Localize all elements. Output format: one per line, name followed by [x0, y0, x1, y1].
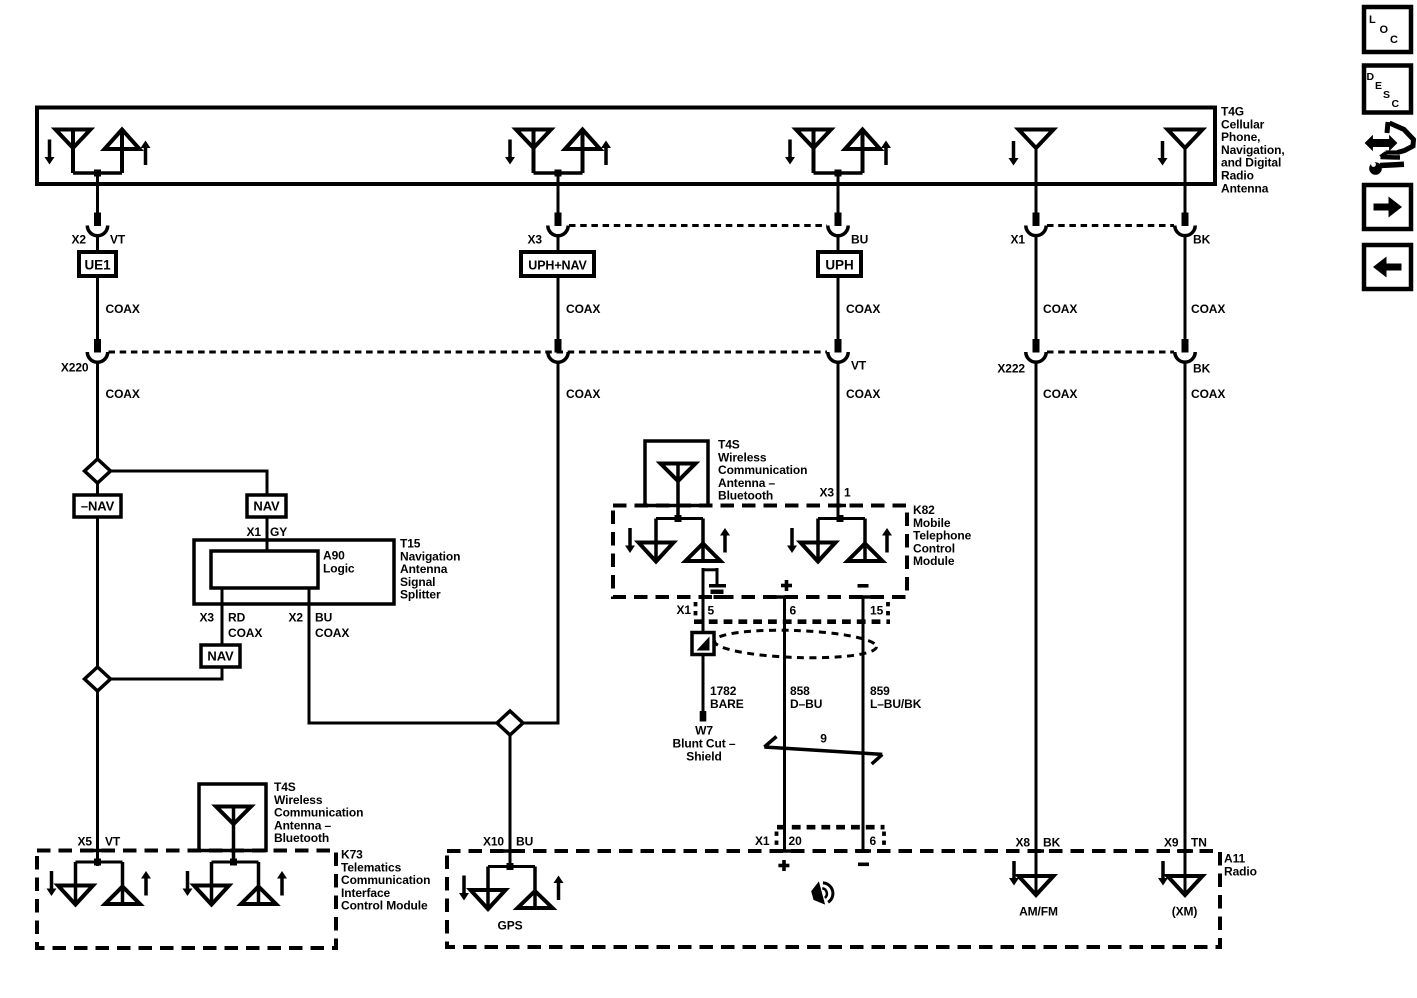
svg-text:BK: BK	[1193, 233, 1211, 247]
svg-text:E: E	[1375, 80, 1382, 92]
label W7 Blunt Cut Shield	[673, 724, 736, 764]
svg-text:BU: BU	[851, 233, 868, 247]
svg-text:UPH: UPH	[825, 258, 853, 273]
svg-text:859: 859	[870, 684, 890, 698]
svg-text:X9: X9	[1164, 836, 1179, 850]
svg-text:X220: X220	[61, 361, 89, 375]
svg-text:15: 15	[870, 604, 884, 618]
code NAV box upper	[247, 495, 286, 517]
connector inline wire 3 row 2	[828, 339, 848, 362]
svg-text:UE1: UE1	[85, 258, 112, 273]
antenna T4S Bluetooth box upper	[645, 441, 708, 506]
svg-text:VT: VT	[105, 835, 121, 849]
label T4S Wireless Communication Antenna Bluetooth upper	[718, 438, 807, 503]
svg-text:GY: GY	[270, 525, 287, 539]
svg-text:X3: X3	[528, 233, 543, 247]
wire connector to row 2	[1184, 236, 1187, 341]
wire X1 to X222	[1035, 236, 1038, 341]
svg-text:Bluetooth: Bluetooth	[718, 489, 773, 503]
connector X2 inline	[87, 213, 107, 236]
antenna input XM triangle	[1168, 876, 1203, 895]
wire voice negative 859	[862, 597, 865, 851]
code -NAV box	[74, 495, 121, 517]
svg-text:NAV: NAV	[253, 499, 280, 514]
wire 2 to GPS junction	[557, 362, 560, 725]
connector inline wire 2 row 2	[548, 339, 568, 362]
label T15 Navigation Antenna Signal Splitter	[400, 537, 460, 602]
svg-text:X2: X2	[72, 233, 87, 247]
svg-text:X1: X1	[247, 525, 262, 539]
svg-text:COAX: COAX	[1191, 302, 1225, 316]
antenna pair inside K73 at X5 wire	[47, 859, 152, 905]
label minus K62	[858, 584, 869, 588]
wire down to radio X9	[1184, 362, 1187, 895]
wire 3 down to K62 module	[837, 362, 840, 520]
wire splitter X3 RD output	[221, 588, 224, 646]
antenna element 4 (receive) in T4G box	[1009, 130, 1054, 166]
antenna input AM/FM triangle	[1019, 876, 1054, 895]
svg-text:BU: BU	[516, 835, 533, 849]
dashed connector link X220 to VT	[109, 351, 828, 354]
wire shield pin 5 to blunt cut	[702, 568, 705, 711]
svg-text:TN: TN	[1191, 836, 1207, 850]
dotted connector face line K62 X1	[694, 619, 890, 624]
wire X222 to radio X8	[1035, 362, 1038, 895]
module K62 Mobile Telephone Control Module dashed box	[613, 506, 907, 598]
label circuit 858 D-BU	[790, 684, 822, 711]
svg-text:GPS: GPS	[497, 919, 522, 933]
dashed connector link X1 to BK	[1047, 224, 1174, 227]
svg-text:COAX: COAX	[106, 387, 140, 401]
svg-text:Shield: Shield	[686, 750, 721, 764]
svg-text:VT: VT	[110, 233, 126, 247]
svg-text:Radio: Radio	[1224, 864, 1257, 878]
connector X222 inline	[1026, 339, 1046, 362]
wire NAV lower to splice B	[109, 667, 224, 681]
svg-text:X3: X3	[200, 611, 215, 625]
antenna element pair 2 (transmit/receive) in T4G box	[505, 130, 611, 177]
wire horizontal GPS junction run	[308, 722, 560, 725]
svg-text:COAX: COAX	[846, 387, 880, 401]
svg-text:1: 1	[844, 486, 851, 500]
svg-text:X1: X1	[677, 603, 692, 617]
svg-text:AM/FM: AM/FM	[1019, 905, 1058, 919]
dashed connector link X222 to BK	[1047, 351, 1174, 354]
wire X2 to UE1	[96, 236, 99, 253]
svg-text:COAX: COAX	[1191, 387, 1225, 401]
wire X3 to UPH+NAV	[557, 236, 560, 253]
svg-text:9: 9	[820, 732, 827, 746]
label A11 Radio	[1224, 852, 1257, 879]
wire splice A to -NAV box	[96, 483, 99, 495]
connector inline wire 5 row 2	[1175, 339, 1195, 362]
label K73 Telematics Communication Interface Control Module	[341, 848, 430, 913]
svg-text:L–BU/BK: L–BU/BK	[870, 697, 922, 711]
svg-text:BARE: BARE	[710, 697, 744, 711]
wire voice positive 858	[783, 597, 786, 851]
connector inline wire 5 row 1	[1175, 213, 1195, 236]
svg-text:X222: X222	[997, 362, 1025, 376]
svg-text:VT: VT	[851, 359, 867, 373]
svg-text:X10: X10	[483, 835, 504, 849]
antenna assembly T4G outline box	[37, 108, 1215, 185]
svg-text:20: 20	[789, 834, 803, 848]
antenna T4S Bluetooth box lower	[199, 784, 266, 851]
label circuit 1782 BARE	[710, 684, 744, 711]
antenna element pair 3 (transmit/receive) in T4G box	[785, 130, 891, 177]
wire NAV to splitter pin X1	[266, 517, 269, 552]
svg-text:Splitter: Splitter	[400, 588, 441, 602]
svg-text:COAX: COAX	[1043, 387, 1077, 401]
connector X220 inline	[87, 339, 107, 362]
svg-text:Control Module: Control Module	[341, 899, 428, 913]
wire splice C to X10	[509, 735, 512, 867]
svg-text:Antenna: Antenna	[1221, 181, 1269, 195]
module A11 Radio dashed box	[447, 851, 1220, 947]
svg-text:X1: X1	[1011, 233, 1026, 247]
label circuit 859 L-BU/BK	[870, 684, 922, 711]
label T4G Cellular Phone Navigation and Digital Radio Antenna	[1221, 105, 1285, 196]
svg-text:C: C	[1392, 98, 1400, 110]
wire antenna 4 to connector X1	[1035, 148, 1038, 214]
label minus radio	[858, 863, 869, 867]
wire splice A branch to NAV box	[109, 470, 268, 496]
tick dotted left X1	[694, 602, 698, 618]
svg-text:S: S	[1383, 89, 1390, 101]
svg-text:COAX: COAX	[228, 626, 262, 640]
svg-text:BU: BU	[315, 611, 332, 625]
svg-text:NAV: NAV	[207, 649, 234, 664]
label A90 Logic	[323, 549, 355, 576]
antenna pair Bluetooth inside K62	[625, 515, 730, 562]
wire antenna 5 to connector	[1184, 148, 1187, 214]
wire splice B to X5 K73	[96, 691, 99, 866]
terminal bar at X5 entry	[90, 849, 106, 853]
dotted connector face line radio X1	[777, 825, 885, 830]
twisted-lead arrow note	[764, 737, 882, 765]
svg-text:W7: W7	[695, 724, 713, 738]
dashed connector link X3 to BU	[569, 224, 827, 227]
terminal bar at K62 entry	[830, 504, 846, 508]
module K73 Telematics Communication Interface Control Module dashed box	[37, 851, 336, 949]
antenna element 5 (receive) in T4G box	[1158, 130, 1203, 166]
wire antenna 2 feed to connector X3	[557, 173, 560, 214]
svg-text:Logic: Logic	[323, 562, 355, 576]
svg-text:COAX: COAX	[846, 302, 880, 316]
connector X3 inline	[548, 213, 568, 236]
svg-text:X3: X3	[820, 486, 835, 500]
svg-text:X5: X5	[78, 835, 93, 849]
wire UPH to inline connector	[837, 276, 840, 340]
label plus radio	[778, 860, 789, 871]
arrow down XM	[1161, 861, 1165, 878]
svg-text:Bluetooth: Bluetooth	[274, 831, 329, 845]
shield marker square with triangle	[692, 633, 714, 655]
tick dotted radio right	[882, 832, 886, 848]
icon box DESC	[1364, 66, 1411, 113]
antenna symbol in T4S upper	[661, 464, 696, 520]
ground symbol K62 shield	[703, 568, 726, 599]
wire antenna 1 feed to connector X2	[96, 173, 99, 214]
svg-text:858: 858	[790, 684, 810, 698]
svg-text:X2: X2	[289, 611, 304, 625]
antenna symbol in T4S lower	[216, 807, 251, 863]
connector X1 inline	[1026, 213, 1046, 236]
terminal bar at X9 entry	[1177, 849, 1193, 853]
icon box LOC	[1364, 7, 1411, 52]
wire splitter X2 BU output	[308, 588, 311, 725]
svg-text:L: L	[1369, 14, 1376, 26]
antenna pair cellular inside K62	[787, 515, 892, 562]
svg-text:COAX: COAX	[1043, 302, 1077, 316]
svg-text:BK: BK	[1193, 362, 1211, 376]
terminal bar at X10 entry	[502, 849, 518, 853]
antenna element pair 1 (transmit/receive) in T4G box	[45, 130, 151, 177]
svg-text:COAX: COAX	[566, 302, 600, 316]
wire antenna 3 feed to connector	[837, 173, 840, 214]
svg-text:X1: X1	[755, 834, 770, 848]
svg-text:COAX: COAX	[106, 302, 140, 316]
terminal bar 858 at K62	[777, 595, 793, 599]
svg-text:Module: Module	[913, 554, 955, 568]
label K82 Mobile Telephone Control Module	[913, 503, 972, 568]
option code UPH box	[818, 252, 861, 276]
svg-text:BK: BK	[1043, 836, 1061, 850]
svg-text:X8: X8	[1016, 836, 1031, 850]
antenna pair inside K73 at T4S antenna	[183, 859, 288, 905]
wire UPH+NAV to inline connector	[557, 276, 560, 340]
svg-text:(XM): (XM)	[1172, 905, 1198, 919]
label T4S Wireless Communication Antenna Bluetooth lower	[274, 780, 363, 845]
label plus K62	[781, 580, 792, 591]
terminal bar 6 at radio	[855, 849, 871, 853]
svg-text:O: O	[1380, 24, 1389, 36]
connector inline wire 3 row 1	[828, 213, 848, 236]
wire to UPH box	[837, 236, 840, 253]
terminal bar at X8 entry	[1028, 849, 1044, 853]
tick dotted right	[886, 602, 890, 618]
tick dotted radio left	[775, 832, 779, 848]
svg-text:6: 6	[790, 604, 797, 618]
speaker icon radio	[809, 879, 835, 908]
svg-text:D: D	[1367, 71, 1375, 83]
svg-text:C: C	[1390, 34, 1398, 46]
splice diamond node B	[85, 667, 111, 691]
splice diamond node C	[497, 711, 523, 735]
arrow down AM/FM	[1012, 861, 1016, 878]
svg-text:COAX: COAX	[315, 626, 349, 640]
wire -NAV to splice B	[96, 517, 99, 668]
svg-text:D–BU: D–BU	[790, 697, 822, 711]
wire UE1 to X220 COAX	[96, 276, 99, 340]
code NAV box lower	[201, 645, 240, 667]
icon box arrow left	[1364, 245, 1411, 289]
shield dashed ellipse	[714, 628, 877, 661]
svg-text:RD: RD	[228, 611, 246, 625]
svg-text:1782: 1782	[710, 684, 737, 698]
splice diamond node A	[85, 459, 111, 483]
svg-text:Blunt Cut –: Blunt Cut –	[673, 737, 736, 751]
logic block A90 inner box	[211, 551, 318, 588]
icon harness routing arrows and wrench	[1365, 122, 1414, 175]
option code UE1 box	[79, 252, 116, 276]
svg-text:A90: A90	[323, 549, 345, 563]
svg-text:UPH+NAV: UPH+NAV	[528, 259, 587, 273]
option code UPH+NAV box	[521, 252, 594, 276]
svg-text:–NAV: –NAV	[81, 499, 115, 514]
wire X220 to splice	[96, 362, 99, 460]
terminal bar 20 at radio	[777, 849, 793, 853]
svg-text:6: 6	[870, 834, 877, 848]
antenna pair GPS inside radio	[459, 863, 564, 909]
blunt cut terminal W7	[700, 711, 707, 722]
terminal bar 859 at K62	[855, 595, 871, 599]
icon box arrow right	[1364, 185, 1411, 229]
svg-text:COAX: COAX	[566, 387, 600, 401]
splitter T15 outer box	[194, 540, 394, 604]
svg-text:5: 5	[708, 604, 715, 618]
